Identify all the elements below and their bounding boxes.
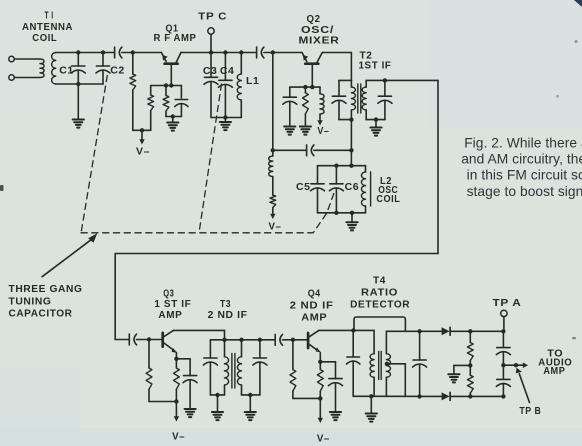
svg-text:Fig. 2. While there are: Fig. 2. While there are — [464, 136, 582, 151]
svg-text:Q4: Q4 — [308, 289, 321, 300]
svg-text:Q3: Q3 — [163, 289, 174, 300]
svg-text:THREE GANG: THREE GANG — [9, 283, 83, 295]
svg-text:V–: V– — [136, 147, 150, 158]
svg-text:MIXER: MIXER — [299, 36, 340, 47]
svg-text:TP A: TP A — [493, 298, 522, 309]
svg-text:AMP: AMP — [301, 313, 327, 324]
svg-text:Q2: Q2 — [307, 14, 321, 25]
svg-text:and AM circuitry, the s: and AM circuitry, the s — [461, 152, 582, 167]
svg-text:C1: C1 — [59, 65, 74, 77]
svg-text:1ST IF: 1ST IF — [359, 60, 392, 71]
svg-text:C5: C5 — [296, 181, 311, 193]
svg-text:V–: V– — [317, 433, 330, 444]
svg-text:TP C: TP C — [198, 12, 227, 23]
svg-text:AMP: AMP — [543, 366, 565, 377]
svg-text:1 ST IF: 1 ST IF — [154, 299, 191, 310]
svg-text:RATIO: RATIO — [361, 287, 398, 298]
svg-text:C6: C6 — [345, 181, 360, 193]
svg-text:C4: C4 — [220, 65, 235, 77]
svg-text:COIL: COIL — [32, 33, 57, 44]
svg-text:C2: C2 — [110, 65, 125, 77]
svg-text:CAPACITOR: CAPACITOR — [9, 307, 73, 319]
svg-text:2 ND IF: 2 ND IF — [290, 301, 334, 312]
svg-text:L1: L1 — [246, 75, 259, 87]
svg-text:2 ND IF: 2 ND IF — [208, 310, 248, 321]
svg-text:DETECTOR: DETECTOR — [350, 299, 410, 310]
svg-text:in this FM circuit sche: in this FM circuit sche — [467, 168, 582, 183]
svg-text:C3: C3 — [203, 65, 218, 77]
svg-text:T4: T4 — [373, 275, 386, 286]
svg-text:TP B: TP B — [519, 406, 541, 417]
svg-text:R F AMP: R F AMP — [154, 33, 197, 44]
svg-text:V–: V– — [269, 221, 282, 232]
svg-text:ANTENNA: ANTENNA — [22, 22, 73, 33]
svg-text:V–: V– — [317, 126, 329, 137]
svg-text:stage to boost signal: stage to boost signal — [467, 184, 582, 199]
svg-text:TUNING: TUNING — [9, 295, 52, 307]
svg-text:T3: T3 — [220, 299, 231, 310]
svg-text:COIL: COIL — [376, 194, 400, 205]
svg-text:OSC/: OSC/ — [301, 25, 334, 36]
svg-text:T I: T I — [45, 10, 54, 21]
svg-text:AMP: AMP — [158, 310, 182, 321]
svg-text:V–: V– — [172, 432, 185, 443]
